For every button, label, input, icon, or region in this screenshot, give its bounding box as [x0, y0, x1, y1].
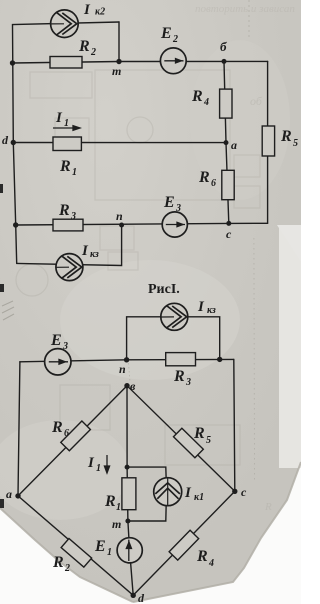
- svg-text:2: 2: [64, 563, 70, 574]
- svg-text:R: R: [58, 202, 70, 219]
- svg-text:6: 6: [64, 428, 69, 439]
- svg-text:6: 6: [211, 178, 216, 189]
- svg-text:E: E: [94, 538, 106, 555]
- svg-text:РисI.: РисI.: [148, 282, 180, 297]
- svg-text:E: E: [50, 332, 62, 349]
- svg-text:I: I: [184, 485, 192, 501]
- svg-text:об: об: [250, 94, 263, 108]
- svg-text:повторить и зависап: повторить и зависап: [195, 3, 295, 15]
- svg-text:б: б: [220, 39, 227, 54]
- svg-text:m: m: [112, 517, 121, 531]
- svg-text:3: 3: [185, 377, 191, 388]
- svg-text:кз: кз: [207, 305, 216, 316]
- svg-text:к2: к2: [95, 7, 105, 18]
- svg-text:d: d: [2, 133, 9, 147]
- svg-text:4: 4: [203, 97, 209, 108]
- svg-text:R: R: [264, 501, 272, 513]
- svg-text:I: I: [81, 243, 89, 259]
- svg-text:c: c: [241, 485, 247, 499]
- svg-text:1: 1: [72, 167, 77, 178]
- svg-text:m: m: [112, 64, 121, 78]
- svg-text:1: 1: [107, 547, 112, 558]
- svg-text:3: 3: [70, 211, 76, 222]
- svg-text:R: R: [52, 554, 64, 571]
- svg-text:R: R: [59, 158, 71, 175]
- svg-text:кз: кз: [90, 249, 99, 260]
- svg-text:E: E: [160, 25, 172, 42]
- svg-text:4: 4: [208, 558, 214, 569]
- svg-text:I: I: [55, 110, 63, 126]
- svg-text:a: a: [6, 487, 12, 501]
- svg-text:R: R: [191, 88, 203, 105]
- svg-text:n: n: [119, 362, 126, 376]
- svg-text:2: 2: [90, 47, 96, 58]
- svg-text:R: R: [193, 425, 205, 442]
- svg-text:R: R: [198, 169, 210, 186]
- svg-text:1: 1: [116, 502, 121, 513]
- svg-text:3: 3: [175, 203, 181, 214]
- svg-text:3: 3: [62, 341, 68, 352]
- svg-text:R: R: [196, 548, 208, 565]
- svg-text:R: R: [104, 493, 116, 510]
- svg-text:R: R: [173, 368, 185, 385]
- svg-text:a: a: [231, 138, 237, 152]
- svg-text:R: R: [51, 419, 63, 436]
- svg-text:5: 5: [293, 138, 298, 149]
- svg-text:n: n: [116, 209, 123, 223]
- svg-text:I: I: [83, 2, 91, 18]
- svg-text:5: 5: [206, 435, 211, 446]
- svg-text:R: R: [280, 128, 292, 145]
- svg-text:к1: к1: [194, 492, 204, 503]
- svg-text:c: c: [226, 227, 232, 241]
- svg-text:E: E: [163, 194, 175, 211]
- svg-text:1: 1: [64, 118, 69, 129]
- svg-text:в: в: [130, 379, 136, 393]
- svg-text:I: I: [197, 299, 205, 315]
- svg-text:R: R: [78, 38, 90, 55]
- svg-text:2: 2: [172, 34, 178, 45]
- svg-text:1: 1: [96, 463, 101, 474]
- svg-text:I: I: [87, 455, 95, 471]
- svg-text:d: d: [138, 591, 145, 604]
